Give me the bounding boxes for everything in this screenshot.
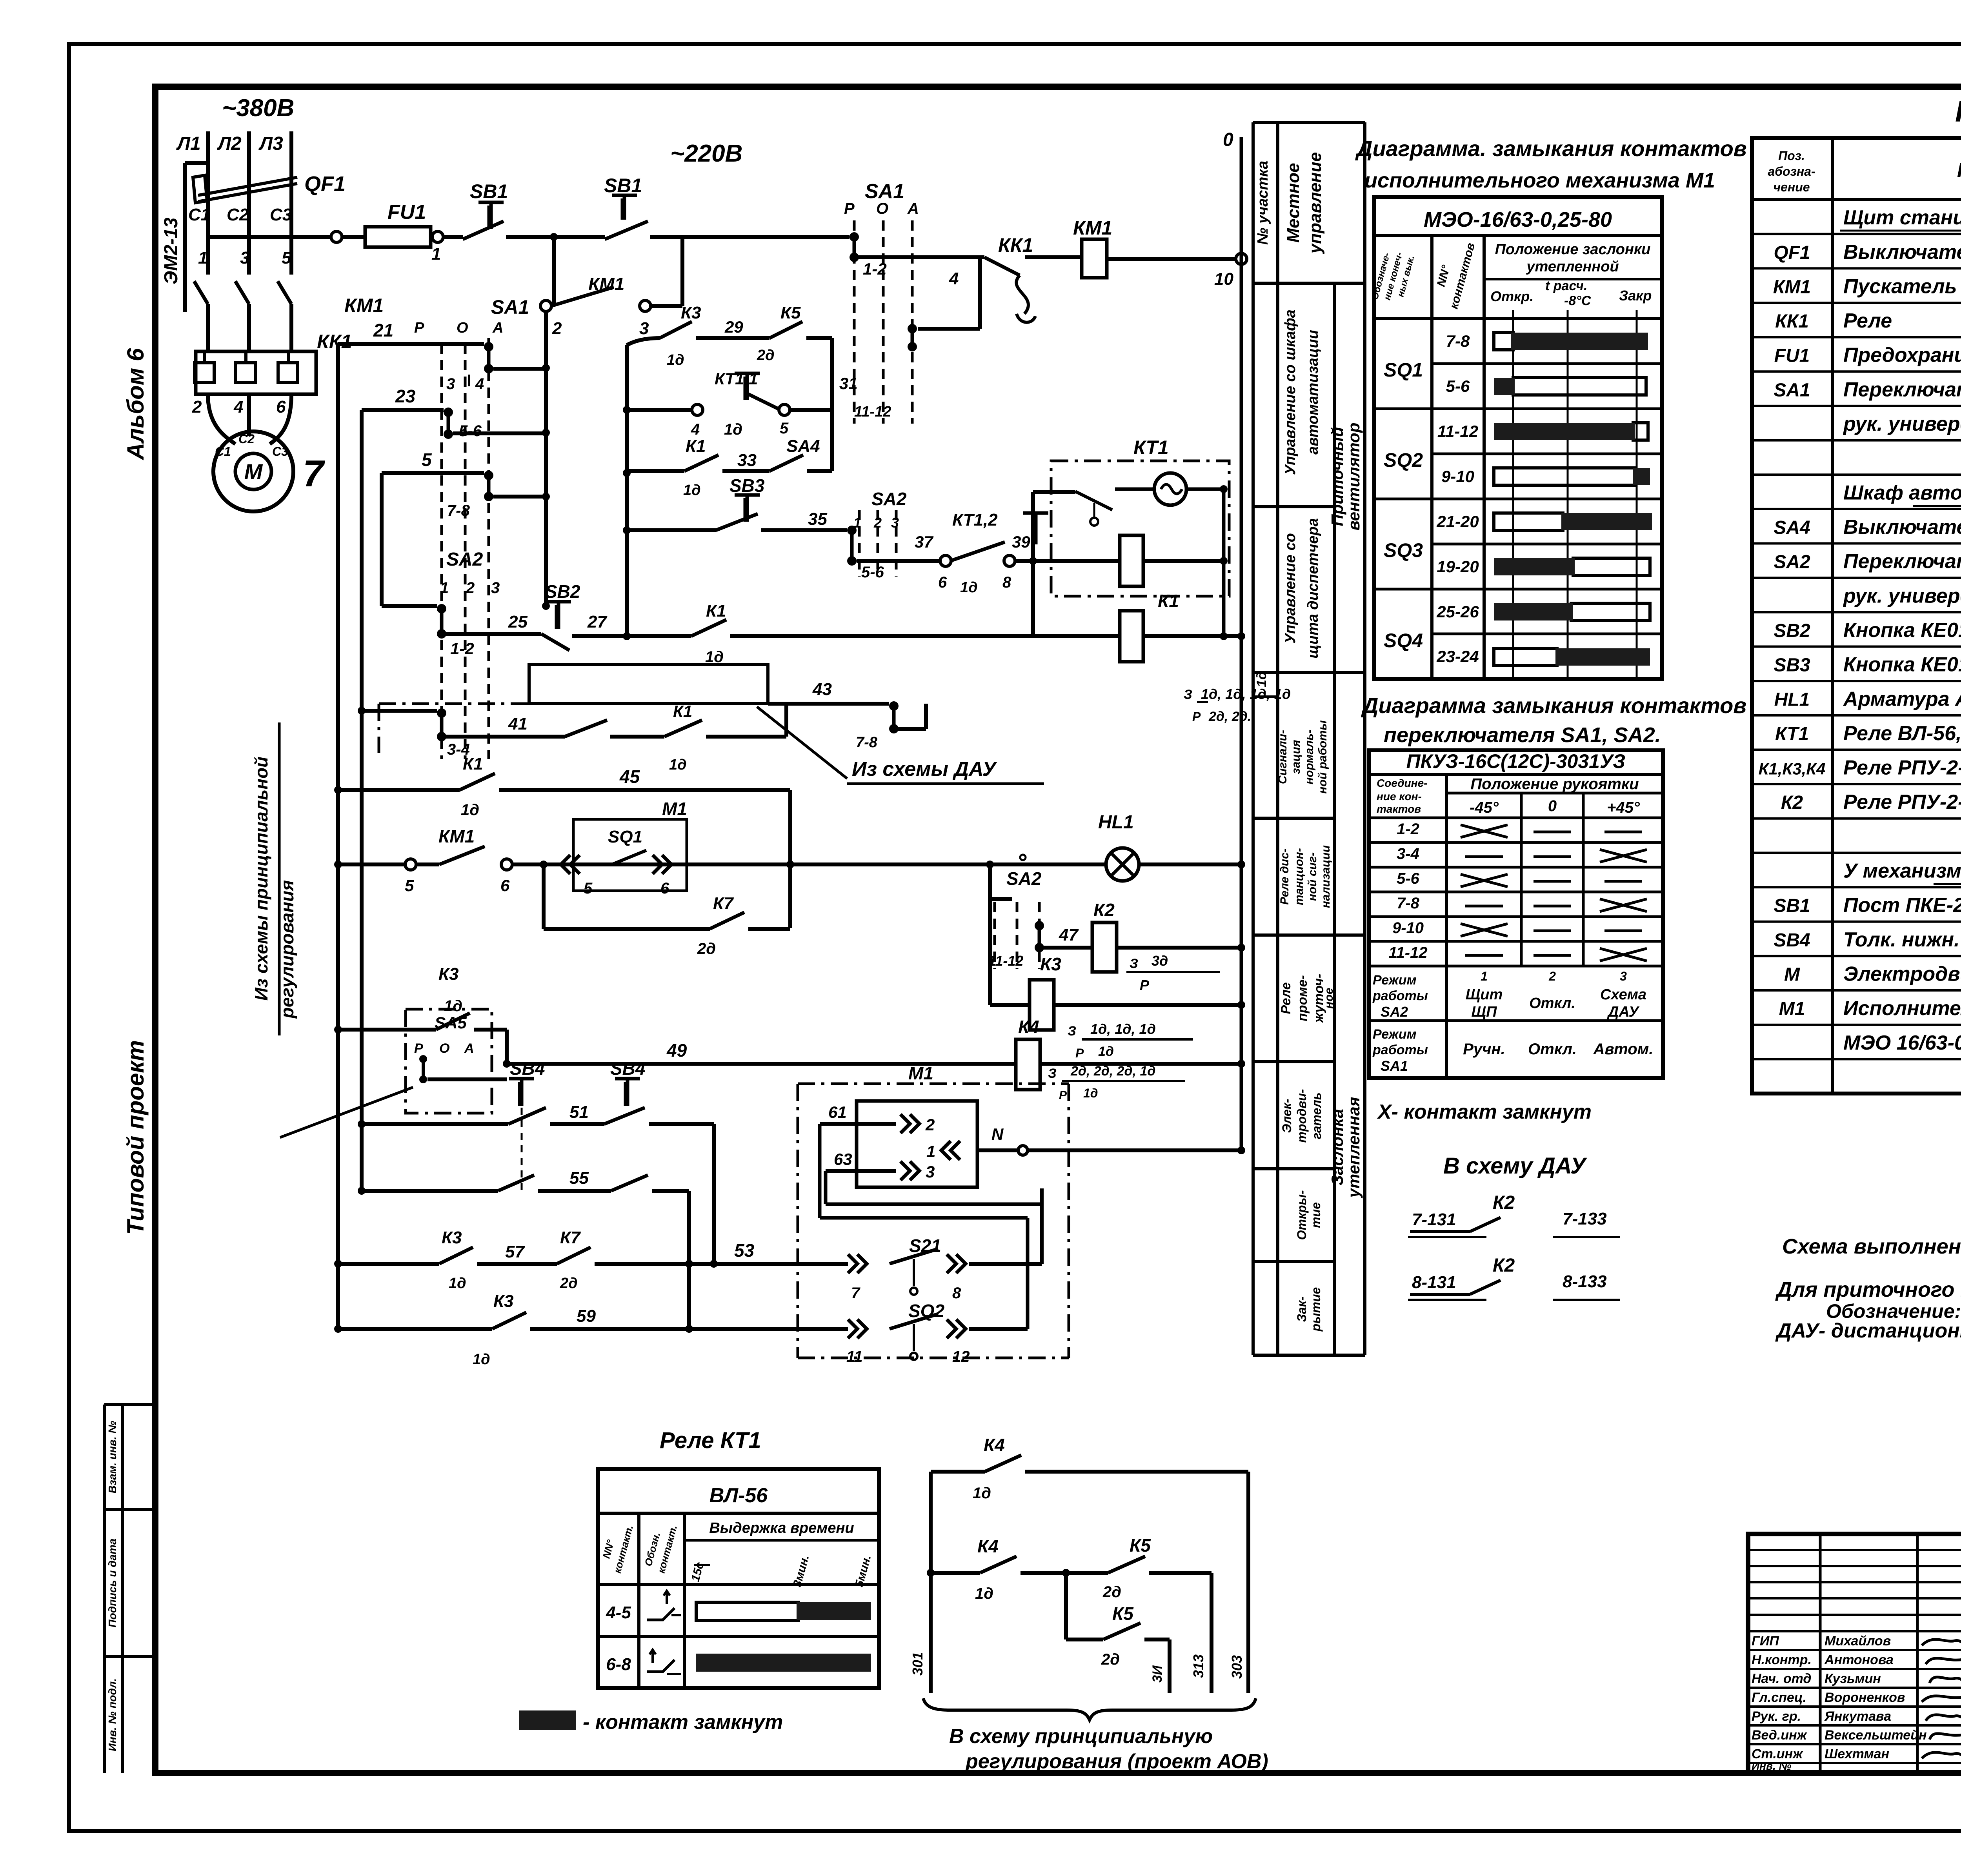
svg-text:7-8: 7-8 (856, 734, 878, 751)
SA1 contact 11-12 link (978, 257, 982, 329)
fragment row 3 contact K5 (1064, 1573, 1068, 1639)
svg-text:Реле дис-: Реле дис- (1278, 848, 1291, 905)
svg-text:HL1: HL1 (1774, 689, 1810, 710)
svg-text:Приточный: Приточный (1328, 427, 1346, 526)
svg-text:4-5: 4-5 (606, 1603, 631, 1622)
actuator M1 dash-dot box (797, 1084, 799, 1358)
svg-text:С1: С1 (215, 444, 231, 459)
svg-text:К4: К4 (984, 1435, 1005, 1455)
svg-text:SQ1: SQ1 (1384, 359, 1423, 381)
svg-text:21: 21 (373, 320, 393, 340)
selector SA2 columns (mid) (858, 510, 861, 577)
svg-text:зация: зация (1290, 740, 1302, 774)
svg-text:SB1: SB1 (470, 180, 508, 202)
svg-text:Положение рукоятки: Положение рукоятки (1470, 775, 1639, 793)
svg-text:Откл.: Откл. (1529, 995, 1575, 1012)
svg-text:К3: К3 (493, 1292, 514, 1311)
svg-text:Откл.: Откл. (1528, 1041, 1577, 1058)
svg-text:SA2: SA2 (446, 549, 483, 570)
KT1 closure bars (696, 1602, 798, 1620)
svg-text:чение: чение (1773, 180, 1810, 194)
svg-text:3: 3 (891, 515, 899, 531)
svg-text:4: 4 (475, 375, 484, 393)
svg-text:Выключатель ПВ1-10У400Б: Выключатель ПВ1-10У400Б (1843, 516, 1961, 539)
svg-text:Щит: Щит (1466, 986, 1503, 1003)
svg-text:З: З (1130, 956, 1138, 971)
svg-text:Взам. инв. №: Взам. инв. № (106, 1421, 118, 1494)
wire row HL1 signal (338, 862, 406, 866)
rail from row 21 (336, 344, 340, 1329)
svg-text:К4: К4 (977, 1536, 999, 1556)
svg-text:5: 5 (584, 880, 593, 897)
svg-text:Х- контакт замкнут: Х- контакт замкнут (1377, 1101, 1592, 1123)
svg-text:3д: 3д (1151, 953, 1168, 969)
svg-text:ВЛ-56: ВЛ-56 (709, 1484, 768, 1507)
svg-text:Кузьмин: Кузьмин (1825, 1671, 1881, 1686)
svg-text:управление: управление (1306, 152, 1325, 254)
relay KT1 table (598, 1469, 879, 1688)
svg-text:1д: 1д (667, 352, 684, 368)
svg-text:Пост ПКЕ-222-2У2 толк. верхн.: Пост ПКЕ-222-2У2 толк. верхн. 1з, 1р (1843, 894, 1961, 917)
svg-text:Щит станций управления 4ЩСУ: Щит станций управления 4ЩСУ. (1843, 206, 1961, 229)
title block left grid (1819, 1534, 1822, 1773)
svg-text:К1: К1 (706, 601, 726, 620)
svg-text:Управление со: Управление со (1282, 533, 1299, 644)
wire row 47 relay K2 (1044, 946, 1092, 950)
function strip table (1252, 122, 1255, 1355)
svg-text:SA4: SA4 (1774, 517, 1810, 538)
remote control DAU boundary (379, 702, 768, 705)
svg-text:Пускатель: Пускатель (1843, 275, 1957, 298)
fragment brace (923, 1698, 1256, 1720)
svg-text:39: 39 (1012, 533, 1030, 551)
svg-text:О: О (439, 1041, 449, 1056)
svg-text:61: 61 (828, 1103, 847, 1121)
svg-text:2д: 2д (1101, 1651, 1120, 1668)
svg-text:К1: К1 (463, 754, 483, 773)
svg-text:SB3: SB3 (729, 475, 765, 496)
svg-text:3: 3 (491, 579, 500, 597)
svg-text:55: 55 (569, 1168, 589, 1188)
svg-text:В схему принципиальную: В схему принципиальную (949, 1725, 1213, 1748)
svg-text:3: 3 (446, 375, 455, 393)
svg-text:6-8: 6-8 (606, 1655, 631, 1674)
svg-text:9-10: 9-10 (1441, 467, 1474, 486)
SA1 contact 3-4 (484, 342, 493, 351)
svg-text:27: 27 (587, 612, 608, 631)
wire row 23 (362, 408, 444, 412)
svg-text:313: 313 (1190, 1654, 1206, 1678)
svg-text:1д: 1д (461, 801, 479, 819)
svg-text:Антонова: Антонова (1824, 1652, 1894, 1667)
svg-text:45: 45 (619, 766, 640, 787)
svg-text:КМ1: КМ1 (1073, 217, 1112, 239)
svg-text:Шкаф автоматизации: Шкаф автоматизации (1843, 481, 1961, 504)
svg-text:К7: К7 (713, 894, 734, 913)
svg-text:танцион-: танцион- (1293, 848, 1306, 905)
svg-text:53: 53 (734, 1240, 755, 1261)
node 2 (540, 300, 551, 311)
svg-text:ГИП: ГИП (1752, 1634, 1779, 1649)
svg-text:43: 43 (812, 680, 832, 699)
svg-text:37: 37 (915, 533, 933, 551)
K3 K5 interlock row (627, 338, 660, 345)
fragment row 2 contacts K4 K5 (927, 1569, 935, 1577)
svg-text:2д: 2д (1102, 1583, 1121, 1601)
svg-text:6: 6 (938, 574, 947, 591)
svg-text:регулирования (проект АОВ): регулирования (проект АОВ) (965, 1750, 1268, 1773)
svg-text:Из схемы ДАУ: Из схемы ДАУ (852, 758, 997, 781)
wire row 45 (338, 788, 460, 792)
leader line iz shemy DAU (757, 707, 847, 779)
svg-text:А: А (492, 320, 503, 336)
leader to SA5 (280, 1087, 413, 1137)
svg-text:1: 1 (431, 244, 441, 264)
svg-text:ДАУ: ДАУ (1607, 1004, 1640, 1020)
svg-text:23: 23 (395, 386, 416, 406)
svg-text:тие: тие (1309, 1202, 1323, 1228)
contact K1 (DAU) (664, 720, 702, 737)
svg-text:Переключатель ПКУЗ-12СУЗ схема: Переключатель ПКУЗ-12СУЗ схема 3031 (1843, 550, 1961, 573)
title block frame (1748, 1534, 1961, 1773)
svg-text:-8°С: -8°С (1564, 293, 1591, 308)
svg-text:Рук. гр.: Рук. гр. (1752, 1709, 1801, 1724)
svg-text:7-8: 7-8 (1397, 895, 1420, 912)
svg-text:2д: 2д (757, 347, 775, 364)
svg-text:5-6: 5-6 (1446, 377, 1470, 395)
svg-text:рук. универсал.: рук. универсал. (1843, 413, 1961, 435)
svg-text:КТ1.1: КТ1.1 (715, 369, 758, 388)
svg-text:Элек-: Элек- (1280, 1099, 1294, 1133)
svg-text:КК1: КК1 (317, 331, 352, 353)
svg-text:2: 2 (192, 397, 202, 417)
svg-text:33: 33 (737, 451, 757, 470)
fragment top wire with contact K4 (931, 1470, 985, 1474)
svg-text:К2: К2 (1093, 900, 1115, 920)
svg-text:SB1: SB1 (1774, 895, 1810, 916)
svg-text:Режим: Режим (1373, 1027, 1417, 1042)
svg-text:Наименование: Наименование (1957, 159, 1961, 182)
cable tag EM2-13 (183, 163, 187, 312)
lamp HL1 (1106, 848, 1139, 881)
time relay contact KT1,2 (1034, 513, 1038, 544)
svg-text:QF1: QF1 (1774, 242, 1810, 263)
contactor KM1 main contacts (206, 237, 210, 275)
pushbutton SB1 (start) (554, 235, 605, 239)
selector SA2 columns (right) (988, 864, 992, 899)
wire to bus (1107, 257, 1236, 261)
svg-text:-45°: -45° (1470, 799, 1499, 816)
svg-text:11-12: 11-12 (1388, 944, 1427, 961)
circuit breaker QF1 (206, 165, 210, 237)
svg-text:1д: 1д (669, 757, 687, 773)
svg-text:Схема выполнена для приточн: Схема выполнена для приточного вентилято… (1782, 1235, 1961, 1258)
svg-text:9-10: 9-10 (1392, 919, 1424, 937)
svg-text:утепленная: утепленная (1344, 1097, 1363, 1199)
svg-text:FU1: FU1 (1774, 346, 1810, 366)
svg-text:SB2: SB2 (545, 581, 580, 602)
contactor coil KM1 (1082, 239, 1107, 278)
svg-text:А: А (464, 1041, 474, 1056)
wire row SB3 35 (627, 528, 716, 532)
svg-text:КТ1,2: КТ1,2 (952, 510, 998, 530)
pushbutton SB4 row 51 (362, 1122, 508, 1126)
svg-text:К2: К2 (1493, 1192, 1515, 1213)
rail from row 23 (360, 410, 364, 1191)
svg-text:25-26: 25-26 (1436, 602, 1479, 621)
svg-text:1: 1 (926, 1142, 935, 1161)
svg-text:Р: Р (1140, 977, 1150, 993)
svg-text:Управление со шкафа: Управление со шкафа (1282, 309, 1299, 475)
wire row KT1.1 (627, 408, 693, 412)
svg-text:Схема: Схема (1600, 986, 1646, 1003)
svg-text:6: 6 (276, 397, 286, 417)
contact closure bars (1494, 333, 1513, 350)
svg-text:7-8: 7-8 (447, 502, 470, 519)
time relay KT1 dash-dot box (1051, 461, 1229, 596)
svg-text:ное: ное (1322, 988, 1335, 1008)
svg-text:Электродвигатель: Электродвигатель (1843, 963, 1961, 985)
svg-text:КТ1: КТ1 (1775, 724, 1809, 744)
svg-text:3И: 3И (1150, 1665, 1165, 1683)
svg-text:КК1: КК1 (1775, 311, 1809, 332)
svg-text:Гл.спец.: Гл.спец. (1752, 1690, 1806, 1705)
wire supply tap (185, 161, 208, 165)
motor M (213, 431, 293, 511)
KT1 left feeder (1031, 492, 1035, 636)
svg-text:гатель: гатель (1310, 1092, 1324, 1139)
svg-text:1д: 1д (973, 1485, 991, 1502)
svg-text:1д: 1д (473, 1351, 490, 1368)
svg-text:Инв. №: Инв. № (1752, 1760, 1792, 1772)
wire row K1 33 SA4 (627, 469, 684, 473)
wire row 53 57 (338, 1262, 439, 1266)
svg-text:Местное: Местное (1284, 163, 1303, 242)
svg-text:Л2: Л2 (217, 133, 242, 154)
svg-text:SQ1: SQ1 (608, 827, 642, 846)
contact K7 branch (542, 864, 546, 929)
wire control line (208, 235, 331, 239)
time relay contact KT1.1 (746, 373, 749, 400)
wire row 59 (338, 1327, 492, 1331)
svg-text:Выдержка времени: Выдержка времени (709, 1520, 854, 1536)
svg-text:У механизма: У механизма (1843, 860, 1961, 883)
svg-text:Откр.: Откр. (1490, 288, 1534, 304)
svg-text:С2: С2 (238, 432, 255, 446)
svg-text:Реле КТ1: Реле КТ1 (660, 1428, 761, 1453)
svg-text:SQ2: SQ2 (1384, 449, 1423, 471)
svg-text:автоматизации: автоматизации (1305, 330, 1321, 455)
svg-text:1-2: 1-2 (450, 639, 474, 658)
svg-text:SA2: SA2 (1774, 552, 1810, 573)
SA2 contact 11-12 (1035, 921, 1044, 930)
svg-text:утепленной: утепленной (1526, 258, 1619, 275)
table MEO-16/63 (1374, 197, 1662, 679)
svg-text:6: 6 (500, 876, 510, 895)
svg-text:7: 7 (851, 1285, 860, 1302)
relay contact K1 and coil row (627, 634, 691, 638)
svg-text:В схему ДАУ: В схему ДАУ (1443, 1153, 1587, 1179)
selector SA5 dash-dot box (406, 1009, 492, 1113)
svg-text:Закр: Закр (1619, 287, 1652, 304)
svg-text:2: 2 (552, 319, 562, 338)
svg-text:работы: работы (1372, 988, 1428, 1003)
svg-text:1д: 1д (444, 997, 462, 1015)
svg-text:Переключатель ПКУЗ-16СУЗ схема: Переключатель ПКУЗ-16СУЗ схема 3031 (1843, 378, 1961, 401)
svg-text:5: 5 (780, 420, 789, 437)
svg-text:Поз.: Поз. (1778, 149, 1805, 163)
svg-text:5-6: 5-6 (459, 422, 482, 440)
svg-text:47: 47 (1059, 925, 1079, 944)
damper M1 limit switch box (573, 819, 687, 891)
element list table (1752, 138, 1961, 1094)
svg-text:Л1: Л1 (176, 133, 201, 154)
svg-text:1д: 1д (683, 482, 701, 499)
svg-text:Автом.: Автом. (1593, 1041, 1654, 1058)
svg-text:К5: К5 (780, 303, 801, 322)
svg-text:ной работы: ной работы (1316, 720, 1329, 794)
svg-text:59: 59 (577, 1306, 596, 1326)
KT1 clock symbol (1154, 473, 1186, 505)
svg-text:ЩП: ЩП (1472, 1004, 1497, 1020)
wires to motor (208, 394, 235, 444)
svg-text:4: 4 (691, 421, 700, 438)
svg-text:А: А (907, 200, 919, 217)
svg-text:7-8: 7-8 (1446, 332, 1470, 350)
svg-text:Кнопка КЕ011УЗ исполн. 4: Кнопка КЕ011УЗ исполн. 4 (1843, 653, 1961, 676)
diagram guide lines (1512, 310, 1514, 679)
svg-text:щита диспетчера: щита диспетчера (1305, 518, 1321, 659)
svg-text:Предохранитель: Предохранитель (1843, 344, 1961, 367)
svg-text:К1: К1 (1158, 591, 1179, 611)
svg-text:29: 29 (724, 318, 743, 336)
svg-text:Ручн.: Ручн. (1463, 1041, 1505, 1058)
svg-text:К7: К7 (560, 1228, 581, 1247)
svg-text:1д: 1д (1083, 1086, 1098, 1100)
svg-text:ЭМ2-13: ЭМ2-13 (161, 217, 182, 284)
svg-text:ние кон-: ние кон- (1377, 790, 1422, 802)
svg-text:нормаль-: нормаль- (1303, 730, 1316, 784)
svg-text:Нач. отд: Нач. отд (1752, 1671, 1811, 1686)
svg-text:нализации: нализации (1319, 845, 1332, 908)
wire row 25-27 with button SB2 (446, 632, 541, 636)
svg-text:0: 0 (1548, 797, 1557, 815)
svg-text:5-6: 5-6 (1397, 870, 1420, 887)
svg-text:Заслонка: Заслонка (1328, 1109, 1346, 1185)
svg-text:К2: К2 (1493, 1255, 1515, 1276)
svg-text:МЭО 16/63-0,25-80.: МЭО 16/63-0,25-80. (1843, 1032, 1961, 1054)
svg-text:К3: К3 (438, 964, 459, 984)
svg-text:проме-: проме- (1295, 975, 1310, 1021)
svg-text:Р: Р (844, 200, 855, 217)
svg-text:КМ1: КМ1 (344, 295, 384, 317)
svg-text:31: 31 (839, 374, 858, 393)
svg-text:К2: К2 (1781, 792, 1803, 813)
svg-text:11-12: 11-12 (988, 953, 1023, 969)
svg-text:Диаграмма замыкания контакто: Диаграмма замыкания контактов (1361, 693, 1746, 718)
svg-text:К5: К5 (1130, 1535, 1151, 1556)
svg-text:вентилятор: вентилятор (1344, 422, 1363, 530)
svg-text:Р: Р (414, 1041, 423, 1056)
rail from node 2 (544, 311, 548, 606)
wire row K3 left (338, 1028, 436, 1032)
svg-text:51: 51 (569, 1103, 589, 1122)
control bus 0 (1240, 137, 1243, 1153)
table PKU3 (1369, 750, 1663, 1078)
svg-text:КТ1: КТ1 (1133, 437, 1169, 459)
svg-text:Шехтман: Шехтман (1825, 1747, 1889, 1761)
legend contact closed (519, 1710, 576, 1730)
svg-text:С3: С3 (272, 444, 288, 459)
contactor KM1 aux contact (seal-in) (551, 287, 614, 306)
svg-text:М1: М1 (1779, 999, 1805, 1019)
svg-text:М1: М1 (662, 799, 687, 819)
svg-text:2: 2 (925, 1115, 935, 1134)
svg-text:8: 8 (952, 1285, 961, 1302)
svg-text:К1: К1 (686, 437, 706, 456)
svg-text:2д, 2д.: 2д, 2д. (1208, 709, 1251, 724)
svg-text:SA4: SA4 (786, 437, 820, 456)
svg-text:Подпись и дата: Подпись и дата (106, 1539, 118, 1628)
SA2 contact 1-2 (382, 604, 437, 608)
svg-text:19-20: 19-20 (1437, 557, 1479, 576)
svg-text:ПКУЗ-16С(12С)-3031УЗ: ПКУЗ-16С(12С)-3031УЗ (1406, 750, 1626, 772)
svg-text:1д: 1д (975, 1585, 993, 1602)
svg-text:11-12: 11-12 (1437, 422, 1478, 440)
svg-text:1д: 1д (960, 579, 978, 596)
svg-text:SB2: SB2 (1774, 620, 1810, 641)
svg-text:К4: К4 (1018, 1017, 1039, 1037)
svg-text:1д: 1д (1254, 671, 1269, 687)
svg-text:Из схемы принципиальной: Из схемы принципиальной (251, 757, 271, 1001)
svg-text:4: 4 (233, 397, 243, 417)
relay coil K3 (988, 899, 992, 1005)
svg-text:тактов: тактов (1377, 803, 1421, 815)
svg-text:SA1: SA1 (865, 180, 904, 203)
svg-text:SB4: SB4 (610, 1058, 645, 1079)
svg-text:SA1: SA1 (1774, 380, 1810, 400)
wire row 37-39 (857, 559, 941, 563)
svg-text:М: М (1784, 964, 1800, 985)
svg-text:11-12: 11-12 (854, 404, 891, 420)
wire bypass branch (552, 237, 556, 306)
svg-text:абозна-: абозна- (1768, 164, 1815, 178)
svg-text:t расч.: t расч. (1545, 278, 1587, 293)
svg-text:Типовой проект: Типовой проект (122, 1040, 149, 1235)
svg-text:SA1: SA1 (491, 296, 529, 318)
svg-text:3-4: 3-4 (1397, 845, 1419, 862)
svg-text:21-20: 21-20 (1436, 512, 1479, 531)
SA2 contact 5-6 (847, 526, 857, 535)
svg-text:Выключатель: Выключатель (1843, 241, 1961, 264)
wire row 49 relay K4 (507, 1062, 1016, 1066)
svg-text:1д: 1д (1098, 1044, 1114, 1059)
pushbutton SB1 (stop) (443, 235, 463, 239)
rail from row 5 (380, 473, 384, 606)
svg-text:КМ1: КМ1 (438, 826, 475, 846)
svg-text:5-6: 5-6 (861, 564, 884, 581)
svg-text:Положение заслонки: Положение заслонки (1495, 241, 1651, 258)
svg-text:2: 2 (466, 579, 475, 597)
svg-text:Р: Р (1059, 1089, 1067, 1102)
svg-text:Н.контр.: Н.контр. (1752, 1652, 1812, 1667)
svg-text:Зак-: Зак- (1295, 1296, 1309, 1322)
svg-text:Обозначение:: Обозначение: (1826, 1300, 1961, 1322)
svg-text:Реле РПУ-2-36220УЗБ , U~220В: Реле РПУ-2-36220УЗБ , U~220В (1843, 791, 1961, 813)
svg-text:работы: работы (1372, 1043, 1428, 1057)
svg-text:SA1: SA1 (1381, 1058, 1408, 1074)
node 3 (640, 300, 651, 311)
